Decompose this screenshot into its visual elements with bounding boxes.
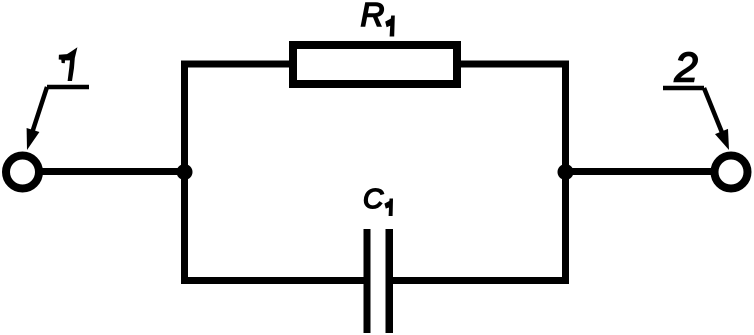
svg-text:C: C bbox=[363, 183, 384, 214]
svg-text:2: 2 bbox=[674, 44, 698, 91]
svg-text:R: R bbox=[361, 0, 385, 33]
